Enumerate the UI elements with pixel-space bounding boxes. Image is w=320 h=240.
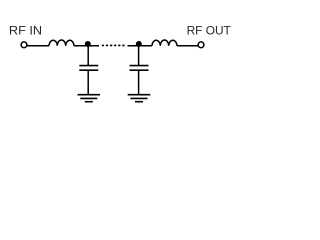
capacitor C1 xyxy=(79,66,98,71)
wire: capacitor C1 to ground xyxy=(87,70,89,95)
capacitor C2 xyxy=(130,66,149,71)
ground (left) xyxy=(78,95,101,102)
wire: node B down to capacitor C2 xyxy=(138,44,140,66)
wire: dashed segment between node A and node B xyxy=(102,44,125,46)
wire: node B to inductor L2 xyxy=(128,45,153,47)
svg-text:RF OUT: RF OUT xyxy=(187,23,232,37)
terminal RF OUT (open circle) xyxy=(198,42,204,48)
ground (right) xyxy=(128,95,151,102)
svg-text:RF IN: RF IN xyxy=(9,23,42,37)
node B (junction dot) xyxy=(136,41,142,47)
wire: capacitor C2 to ground xyxy=(138,70,140,95)
node A (junction dot) xyxy=(85,41,91,47)
wire: node A down to capacitor C1 xyxy=(87,44,89,66)
wire: inductor L1 to node A xyxy=(74,45,99,47)
inductor L1 xyxy=(49,40,74,46)
terminal RF IN (open circle) xyxy=(21,42,27,48)
inductor L2 xyxy=(152,40,177,46)
wire: RF IN terminal to inductor L1 xyxy=(27,45,49,47)
wire: inductor L2 to RF OUT terminal xyxy=(177,45,198,47)
